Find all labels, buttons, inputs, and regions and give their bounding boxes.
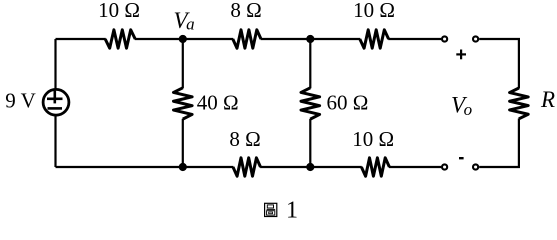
wire bottom rail segment 2	[260, 166, 362, 168]
voltage source 9V circle	[43, 89, 69, 115]
wire 60 ohm branch bottom	[309, 119, 311, 167]
wire top rail segment 2	[135, 38, 234, 40]
svg-text:8 Ω: 8 Ω	[229, 127, 260, 151]
resistor 10 ohm top-right zigzag	[360, 30, 389, 48]
svg-text:9 V: 9 V	[5, 89, 36, 113]
open terminal bottom-left	[442, 164, 447, 169]
wire bottom rail segment left	[56, 166, 234, 168]
svg-text:60 Ω: 60 Ω	[327, 91, 369, 115]
svg-text:10 Ω: 10 Ω	[352, 127, 394, 151]
resistor 8 ohm bottom zigzag	[233, 158, 261, 176]
wire load branch bottom	[479, 119, 519, 168]
resistor R load zigzag	[510, 88, 529, 119]
node B junction dot top	[306, 35, 314, 43]
resistor 8 ohm top zigzag	[233, 30, 261, 48]
node Va junction dot	[179, 35, 187, 43]
svg-text:8 Ω: 8 Ω	[230, 0, 261, 22]
open terminal top-right	[473, 36, 478, 41]
junction dot bottom-right	[306, 163, 314, 171]
minus sign	[459, 157, 464, 159]
caption figure glyph (CJK)	[265, 203, 277, 216]
resistor 10 ohm top-left zigzag	[105, 30, 135, 48]
plus sign	[456, 50, 466, 60]
wire left rail top	[54, 39, 56, 91]
wire 60 ohm branch top	[309, 39, 311, 88]
wire 40 ohm branch top	[182, 39, 184, 88]
wire 40 ohm branch bottom	[182, 119, 184, 167]
wire bottom rail segment 3	[389, 166, 441, 168]
svg-text:40 Ω: 40 Ω	[197, 91, 239, 115]
svg-text:R: R	[540, 87, 555, 112]
open terminal bottom-right	[473, 164, 478, 169]
voltage source plus-minus symbol	[47, 91, 63, 109]
svg-text:10 Ω: 10 Ω	[353, 0, 395, 22]
svg-text:10 Ω: 10 Ω	[98, 0, 140, 22]
resistor 10 ohm bottom zigzag	[361, 158, 389, 176]
resistor 60 ohm zigzag	[301, 88, 320, 119]
open terminal top-left	[442, 36, 447, 41]
resistor 40 ohm zigzag	[174, 88, 193, 119]
wire load branch top	[479, 39, 519, 89]
wire top rail segment 3	[261, 38, 361, 40]
wire left rail bottom	[54, 115, 56, 168]
svg-text:1: 1	[286, 198, 298, 224]
wire top rail segment 4	[388, 38, 441, 40]
wire top rail segment left	[56, 38, 106, 40]
junction dot bottom-left	[179, 163, 187, 171]
